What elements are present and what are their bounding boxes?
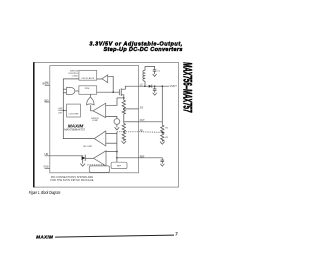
svg-text:COMP: COMP [92,120,99,122]
svg-text:Figure 1. Block Diagram: Figure 1. Block Diagram [29,190,61,195]
svg-text:SHDN: SHDN [42,84,49,86]
svg-text:R1: R1 [165,128,169,130]
svg-text:REF: REF [117,165,122,167]
svg-text:FOR THE 8-PIN DIP/SO PACKAGE: FOR THE 8-PIN DIP/SO PACKAGE [50,179,93,182]
svg-text:OSCILLATOR: OSCILLATOR [81,77,94,80]
svg-text:3/5: 3/5 [140,107,144,109]
svg-text:LBO: LBO [44,100,49,102]
svg-text:MAX756/MAX757: MAX756/MAX757 [64,128,85,132]
svg-text:DET: DET [58,112,63,114]
svg-text:7: 7 [175,232,178,237]
svg-text:1.25V REF: 1.25V REF [68,114,79,116]
svg-text:C1: C1 [157,70,161,72]
svg-text:LOGIC: LOGIC [72,75,79,77]
svg-text:LBI: LBI [45,154,49,156]
svg-text:Step-Up DC-DC Converters: Step-Up DC-DC Converters [104,47,183,53]
svg-text:R2: R2 [165,137,169,139]
svg-text:PFM: PFM [85,88,90,90]
svg-text:VOUT: VOUT [170,85,177,88]
svg-text:MAXIM: MAXIM [36,234,53,239]
svg-text:LBI COMP: LBI COMP [83,146,93,148]
svg-text:GND: GND [43,167,48,169]
svg-text:MAX756–MAX757: MAX756–MAX757 [180,62,194,113]
